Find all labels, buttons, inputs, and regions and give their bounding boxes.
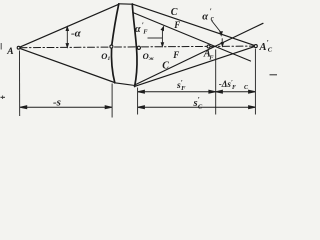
dimension -delta s'FC [216, 90, 255, 93]
svg-text:F: F [173, 20, 180, 30]
wire ray inside lens bottom [115, 83, 135, 86]
svg-text:s′F: s′F [176, 79, 186, 92]
svg-text:Oж: Oж [143, 51, 155, 62]
svg-text:α: α [135, 24, 141, 35]
extension line below Ozh [137, 88, 139, 115]
svg-text:C: C [268, 47, 273, 54]
wire bottom C ray to A'C [135, 46, 256, 86]
node A'F [207, 45, 210, 48]
lens front surface arc O1 [111, 4, 118, 83]
svg-text:F: F [209, 55, 214, 62]
node Ozh [137, 46, 140, 49]
svg-text:′: ′ [211, 45, 213, 54]
extension line below A'C [254, 49, 256, 115]
svg-text:C: C [162, 61, 169, 72]
angle -alpha marker [66, 27, 68, 48]
optical axis [20, 46, 254, 48]
svg-text:-Δs′FC: -Δs′FC [219, 79, 249, 91]
svg-text:c: c [211, 15, 214, 23]
wire upper incident ray A to lens top [20, 4, 119, 47]
svg-text:F: F [143, 29, 148, 36]
node O1 [110, 45, 113, 48]
svg-text:A: A [259, 42, 267, 53]
wire lower incident ray A to lens bottom [20, 48, 115, 82]
svg-text:-s: -s [53, 96, 61, 108]
svg-text:A: A [6, 47, 13, 57]
svg-text:s′C: s′C [193, 95, 203, 110]
svg-text:α: α [202, 12, 208, 23]
stray mark right edge [270, 74, 278, 76]
stray mark left edge [0, 43, 2, 50]
node A [17, 46, 20, 49]
dimension -s [20, 106, 112, 109]
dimension s'C [138, 106, 255, 109]
wire ray inside lens top [119, 3, 133, 5]
svg-text:C: C [171, 7, 178, 18]
dimension s'F [138, 90, 216, 93]
svg-text:O1: O1 [101, 51, 110, 62]
node A'C [254, 45, 257, 48]
extension line below A [19, 51, 21, 117]
wire bottom F ray through A'F extended [135, 23, 263, 85]
lens rear surface arc Ozh [132, 4, 137, 87]
angle alpha'c marker [212, 21, 224, 47]
svg-text:F: F [172, 50, 179, 60]
svg-text:-α: -α [71, 28, 82, 40]
wire top C ray to A'C [132, 4, 255, 46]
wire top F ray through A'F extended [133, 13, 251, 62]
extension line below A'F [215, 50, 217, 115]
angle alpha'F marker [148, 27, 164, 47]
extension line below O1 [111, 84, 113, 118]
stray mark bottom left [1, 96, 6, 98]
